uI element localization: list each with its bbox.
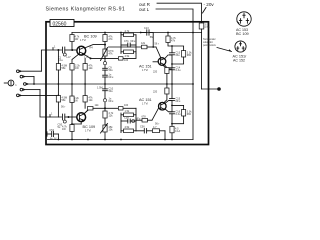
svg-text:point colors: point colors xyxy=(203,44,217,47)
resistor R8 xyxy=(124,50,134,54)
svg-text:4.5k: 4.5k xyxy=(125,126,130,129)
wire -20v tick xyxy=(203,8,207,14)
wire R2 top xyxy=(71,33,73,35)
svg-text:AC 151: AC 151 xyxy=(139,98,152,102)
resistor R3 xyxy=(70,64,74,71)
capacitor C18 xyxy=(143,129,145,134)
svg-text:NFu: NFu xyxy=(176,100,181,103)
svg-text:8u 3V: 8u 3V xyxy=(50,137,57,140)
svg-text:678: 678 xyxy=(142,116,147,119)
terminal T3 xyxy=(24,83,27,86)
wire Q4 emitter xyxy=(165,109,172,112)
svg-text:100: 100 xyxy=(124,104,129,107)
svg-text:1W: 1W xyxy=(62,128,66,131)
transistor Q1 BC109 xyxy=(77,46,86,55)
svg-text:out L: out L xyxy=(139,7,150,12)
svg-text:1 TVl: 1 TVl xyxy=(80,39,86,42)
tone network bottom: resistor R21 xyxy=(124,113,134,117)
svg-text:NFu: NFu xyxy=(109,76,114,79)
tone network top: resistor R7 xyxy=(124,33,134,37)
resistor R1 xyxy=(56,64,60,71)
svg-text:0.1A: 0.1A xyxy=(175,130,180,133)
svg-text:4.7k: 4.7k xyxy=(125,30,130,33)
wire input L inside xyxy=(46,116,62,118)
resistor R19 xyxy=(118,57,123,60)
capacitor C11 xyxy=(127,119,129,123)
svg-text:C7b: C7b xyxy=(124,40,129,43)
svg-text:1 TVl: 1 TVl xyxy=(142,103,148,106)
resistor R25 xyxy=(182,110,186,117)
capacitor C2 xyxy=(62,114,64,120)
resistor R24 xyxy=(170,126,174,133)
wire R15 to col xyxy=(93,107,136,109)
node pin 1 xyxy=(52,48,54,51)
svg-text:50u: 50u xyxy=(109,90,114,93)
wire Q1 emitter xyxy=(72,54,79,63)
svg-text:6.3u: 6.3u xyxy=(176,113,181,116)
svg-text:C54: C54 xyxy=(124,117,129,120)
wire Q2 emitter xyxy=(80,122,82,124)
svg-text:AC 151: AC 151 xyxy=(139,65,152,69)
wire Q3 emitter xyxy=(164,65,172,70)
svg-text:50u: 50u xyxy=(109,69,114,72)
transistor Q2 BC109 xyxy=(77,113,86,122)
label box 02560 xyxy=(50,20,74,27)
resistor R23 xyxy=(142,119,148,123)
svg-text:63u: 63u xyxy=(176,54,181,57)
capacitor C14 xyxy=(170,67,175,69)
resistor R26 xyxy=(153,129,160,133)
wire input R xyxy=(41,50,61,71)
resistor R16 xyxy=(56,96,60,103)
capacitor C6 xyxy=(140,32,142,34)
terminal T5 xyxy=(17,94,20,97)
wire tone left xyxy=(120,33,122,54)
wire tone2 right xyxy=(135,115,137,131)
wire top rail xyxy=(72,32,202,34)
wire to Q3 base xyxy=(156,47,161,58)
wire AC chain top xyxy=(163,65,167,69)
svg-text:BC 109: BC 109 xyxy=(84,35,97,39)
svg-text:4.5k: 4.5k xyxy=(125,55,130,58)
resistor R20 fuse xyxy=(199,23,204,29)
svg-text:56 r: 56 r xyxy=(61,105,65,108)
capacitor C17 xyxy=(46,132,48,136)
wire to Q4 base xyxy=(152,108,159,120)
svg-text:Siemens Klangmeister RS-91: Siemens Klangmeister RS-91 xyxy=(46,7,126,13)
wire C1 to Q1 xyxy=(65,49,77,51)
resistor R12 xyxy=(165,68,169,74)
wire out L xyxy=(156,9,193,140)
wire R3 bottom xyxy=(71,70,73,84)
node speaker stub xyxy=(202,88,218,90)
resistor R17 xyxy=(83,96,87,103)
svg-text:BC 109: BC 109 xyxy=(236,32,249,36)
wire pot arrow xyxy=(101,48,108,61)
capacitor C10 xyxy=(103,88,108,90)
resistor R9 xyxy=(142,45,148,49)
resistor R22 xyxy=(124,129,134,133)
svg-text:220: 220 xyxy=(153,91,158,94)
wire mid bus xyxy=(47,83,194,85)
svg-text:6.3u: 6.3u xyxy=(176,69,181,72)
svg-text:02560: 02560 xyxy=(53,21,67,27)
svg-text:1 TVl: 1 TVl xyxy=(85,129,91,132)
svg-text:56 r: 56 r xyxy=(155,42,159,45)
svg-text:680: 680 xyxy=(187,113,192,116)
wire wiper to base xyxy=(109,46,142,48)
resistor R10 xyxy=(166,36,170,43)
svg-text:680: 680 xyxy=(187,54,192,57)
wire AC chain bottom xyxy=(164,94,167,103)
svg-text:1.5M: 1.5M xyxy=(97,86,103,89)
wire out R xyxy=(157,3,202,23)
svg-text:NFu: NFu xyxy=(131,40,136,43)
wire Q2 collector xyxy=(84,110,88,114)
svg-text:4.7: 4.7 xyxy=(153,126,157,129)
svg-text:5M: 5M xyxy=(150,36,153,39)
wire ground rail xyxy=(48,139,194,141)
transistor case TO1 xyxy=(237,12,251,26)
transistor Q4 AC151 xyxy=(159,102,167,110)
svg-text:1W: 1W xyxy=(75,38,79,41)
capacitor C13 xyxy=(170,52,175,54)
svg-text:NFu: NFu xyxy=(109,100,114,103)
potentiometer P2 xyxy=(103,125,107,132)
wire tone2 left xyxy=(120,113,122,133)
wire T4 to ch2 xyxy=(40,90,46,117)
svg-text:C13: C13 xyxy=(144,27,149,30)
capacitor C4b xyxy=(103,74,108,76)
svg-text:- 20v: - 20v xyxy=(204,2,215,7)
capacitor C4 xyxy=(103,62,106,65)
capacitor C15 xyxy=(170,98,175,100)
svg-text:C52: C52 xyxy=(50,129,55,132)
resistor R13 xyxy=(165,88,169,94)
svg-text:0.5A: 0.5A xyxy=(205,26,210,29)
capacitor C1 xyxy=(62,47,64,53)
resistor R6 xyxy=(103,35,107,42)
resistor R18 xyxy=(103,111,107,118)
resistor R2 xyxy=(70,35,74,42)
transistor Q3 AC151 xyxy=(158,58,166,66)
wire tone right xyxy=(135,35,137,54)
svg-text:1.5k: 1.5k xyxy=(125,110,130,113)
wire Q1 feedback xyxy=(84,54,136,59)
node pin 1b xyxy=(49,115,51,117)
svg-text:1W: 1W xyxy=(75,67,79,70)
terminal T2 xyxy=(20,75,23,78)
svg-text:AC 152: AC 152 xyxy=(233,59,245,63)
wire R5 links xyxy=(84,58,86,63)
resistor R15 xyxy=(88,107,94,111)
resistor R5 xyxy=(83,64,87,71)
svg-text:1 TVl: 1 TVl xyxy=(142,69,148,72)
svg-text:220: 220 xyxy=(153,71,158,74)
svg-text:C56: C56 xyxy=(140,126,145,129)
terminal T1 xyxy=(17,70,20,73)
wire Q3 collector xyxy=(164,55,172,59)
capacitor C16 xyxy=(170,111,175,113)
svg-text:1W: 1W xyxy=(74,100,78,103)
wire C2 to Q2 xyxy=(65,116,77,118)
wire Q1 collector xyxy=(71,42,73,51)
wire note arrow xyxy=(217,48,232,52)
resistor R11 xyxy=(182,51,186,58)
svg-text:Ln7: Ln7 xyxy=(67,56,72,59)
potentiometer P1 xyxy=(103,49,107,56)
wire R6 chain xyxy=(104,33,106,35)
resistor R27 xyxy=(118,107,123,110)
wire R1 xyxy=(57,50,59,64)
resistor R14 xyxy=(70,125,74,132)
wire supply drop xyxy=(201,29,203,33)
transistor case TO2 xyxy=(235,41,246,52)
svg-text:100: 100 xyxy=(124,59,129,62)
wire Q1 collector diag xyxy=(85,45,105,48)
terminal T4 xyxy=(20,88,23,91)
wire Q4 collector xyxy=(165,101,172,104)
wire output column 2 xyxy=(171,84,173,99)
wire R11 xyxy=(172,46,184,51)
board frame xyxy=(46,22,209,145)
wire output column xyxy=(167,33,169,37)
capacitor C5 xyxy=(127,43,129,47)
socket input xyxy=(8,80,14,86)
